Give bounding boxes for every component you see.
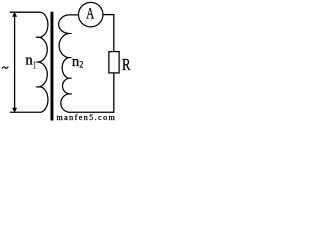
svg-text:R: R bbox=[122, 55, 131, 74]
secondary cusp ticks bbox=[67, 34, 72, 94]
arrowhead up bbox=[12, 12, 17, 17]
wire resistor to bottom corner bbox=[113, 73, 115, 113]
svg-text:2: 2 bbox=[79, 61, 83, 71]
primary winding n1 with top and bottom wires bbox=[10, 12, 48, 112]
AC source arrowed line bbox=[14, 14, 16, 110]
secondary winding n2 with lead wires bbox=[59, 15, 114, 112]
svg-text:A: A bbox=[86, 6, 95, 23]
svg-text:manfen5.com: manfen5.com bbox=[57, 113, 117, 121]
AC tilde symbol bbox=[2, 67, 8, 69]
arrowhead down bbox=[12, 108, 17, 113]
wire right vertical to resistor bbox=[113, 14, 115, 52]
svg-text:1: 1 bbox=[33, 60, 36, 72]
primary cusp ticks bbox=[36, 37, 40, 87]
ammeter A circle bbox=[78, 2, 103, 27]
resistor R rectangle bbox=[109, 52, 119, 73]
transformer core bar bbox=[51, 12, 54, 121]
wire top-left horizontal bbox=[10, 11, 41, 13]
wire ammeter to right corner bbox=[103, 14, 114, 16]
